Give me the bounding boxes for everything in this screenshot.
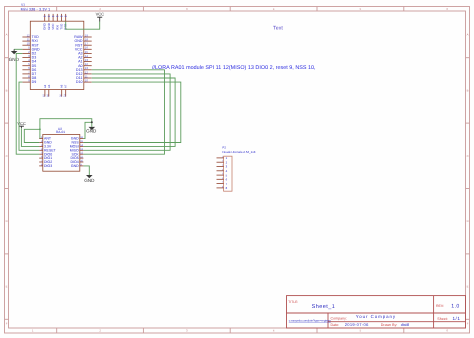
svg-text:2019-07-06: 2019-07-06	[345, 322, 369, 327]
svg-text:u.easyeda.com/join?type=regist: u.easyeda.com/join?type=register	[289, 319, 331, 323]
power symbol VCC (near U2)	[17, 121, 26, 128]
svg-text:10: 10	[85, 79, 89, 83]
svg-text:D: D	[467, 219, 469, 223]
svg-text:TITLE:: TITLE:	[288, 300, 298, 304]
svg-text:Mini 328 - 3.3V 1: Mini 328 - 3.3V 1	[21, 8, 51, 12]
svg-text:RA-01: RA-01	[56, 130, 65, 134]
svg-text:Sheet:: Sheet:	[437, 317, 447, 321]
ground GND (right of U2 top)	[86, 127, 97, 134]
svg-text:D9: D9	[32, 80, 37, 84]
wire D10 to U2 NSS	[83, 82, 180, 142]
svg-text:1/1: 1/1	[453, 316, 461, 321]
U2 right pins (GND..GND)	[70, 136, 84, 168]
svg-text:GND: GND	[86, 129, 97, 134]
ground GND (U1 left pin 4)	[9, 49, 23, 62]
IC U1 Mini 328 - 3.3V (Arduino Pro Mini)	[21, 3, 84, 90]
svg-text:GND: GND	[84, 178, 95, 183]
svg-text:F: F	[6, 322, 8, 326]
power symbol VCC (top)	[96, 12, 105, 22]
svg-text://LORA RA01 module SPI 11 12(M: //LORA RA01 module SPI 11 12(MISO) 13 DI…	[152, 65, 316, 71]
svg-text:B: B	[467, 88, 469, 92]
wire D9 to U2 RESET	[19, 82, 39, 150]
IC U2 RA-01 LoRa module	[43, 127, 80, 171]
svg-text:Your Company: Your Company	[356, 314, 396, 319]
svg-text:A: A	[467, 32, 469, 36]
svg-text:Date:: Date:	[331, 323, 340, 327]
U1 right pins (RAW..D10)	[74, 33, 91, 84]
svg-text:DIO3: DIO3	[44, 164, 52, 168]
svg-text:C: C	[6, 154, 8, 158]
ground GND (below U2)	[84, 175, 95, 183]
svg-text:VCC: VCC	[96, 12, 105, 17]
title block	[287, 296, 466, 328]
wire U2 ANT up and over to GND	[40, 119, 92, 139]
svg-text:D10: D10	[76, 80, 83, 84]
svg-text:A7: A7	[65, 84, 68, 88]
wire U2 right GND pin to GND net	[83, 122, 91, 138]
svg-text:REV:: REV:	[436, 304, 444, 308]
svg-text:GND: GND	[9, 57, 20, 62]
svg-text:GND: GND	[71, 164, 79, 168]
svg-text:U1: U1	[21, 3, 25, 7]
wire D11 to U2 MOSI	[83, 78, 175, 146]
U1 top pins (programming header GND GND VCC RXI TXO DTR)	[43, 14, 68, 30]
junction dot ANT wire	[39, 128, 41, 130]
junction dot GND net	[91, 121, 93, 123]
svg-text:F: F	[467, 322, 469, 326]
wire U2 left GND loop	[24, 129, 40, 142]
svg-text:E: E	[6, 285, 8, 289]
svg-text:Header-Female-2.54_1x8: Header-Female-2.54_1x8	[222, 150, 255, 154]
wire D2 to U2 DIO0	[16, 53, 39, 154]
svg-text:E: E	[467, 285, 469, 289]
P2 pins 1-8	[217, 155, 228, 190]
svg-text:A5: A5	[48, 84, 51, 88]
svg-text:Text: Text	[273, 26, 283, 32]
U1 left pins 12..1 (TXD..D9)	[22, 33, 40, 84]
svg-text:B: B	[6, 88, 8, 92]
svg-text:distill: distill	[401, 323, 410, 327]
wire U2 bottom GND pin to ground	[83, 166, 89, 175]
svg-text:Company:: Company:	[331, 317, 347, 321]
svg-text:P2: P2	[222, 145, 226, 149]
svg-text:Sheet_1: Sheet_1	[312, 304, 336, 310]
U1 bottom pins (A4 A5 A6 A7)	[43, 84, 68, 97]
svg-text:Drawn By:: Drawn By:	[381, 323, 398, 327]
wire D13 to U2 SCK	[83, 70, 164, 154]
svg-text:A4: A4	[44, 84, 47, 88]
wire VCC to U1 top pin 6	[66, 21, 100, 29]
connector P2 Header-Female-2.54_1x8	[222, 145, 255, 191]
svg-text:D: D	[6, 219, 8, 223]
svg-text:C: C	[467, 154, 469, 158]
wire VCC to U2 3.3V	[21, 128, 39, 146]
U2 left pins (ANT..DIO3)	[39, 136, 56, 168]
svg-text:1.0: 1.0	[451, 304, 459, 310]
svg-text:A6: A6	[61, 84, 64, 88]
svg-text:A: A	[6, 32, 8, 36]
wire D12 to U2 MISO	[83, 74, 170, 150]
title block texts	[288, 300, 460, 327]
